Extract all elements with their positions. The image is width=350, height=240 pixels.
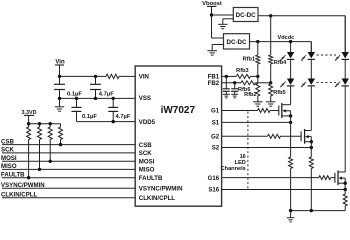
svg-text:Channels: Channels (221, 166, 246, 172)
LED D4 (301, 79, 315, 88)
svg-text:4.7µF: 4.7µF (116, 114, 131, 120)
svg-text:Rfb2: Rfb2 (244, 92, 256, 98)
wire S1 (222, 114, 293, 124)
resistor sense R1 (289, 157, 293, 211)
svg-text:CLKIN/CPLL: CLKIN/CPLL (1, 192, 37, 199)
svg-text:CSB: CSB (1, 138, 14, 145)
svg-text:MOSI: MOSI (1, 155, 17, 162)
resistor pull-up R4 (48, 124, 52, 163)
capacitor C3 0.1uF (72, 98, 98, 121)
net label CSB (1, 138, 14, 145)
DC-DC converter 2 (224, 34, 250, 49)
junction (58, 75, 97, 78)
resistor gate G1 (258, 109, 271, 113)
svg-text:Rfb3: Rfb3 (236, 68, 248, 74)
svg-text:CLKIN/CPLL: CLKIN/CPLL (139, 195, 175, 202)
wire LED column 3 (344, 16, 346, 79)
net label MISO (1, 163, 17, 170)
svg-text:MISO: MISO (1, 163, 17, 170)
wire FB2 (222, 81, 273, 84)
LED D2 (280, 79, 294, 88)
svg-text:0.1µF: 0.1µF (82, 114, 97, 120)
ground DC-DC2 (207, 45, 223, 56)
pin label VSS (139, 95, 151, 102)
svg-text:G1: G1 (211, 108, 220, 115)
pin label VDD5 (139, 119, 156, 126)
ground (266, 102, 276, 106)
wire Q1 source down (290, 116, 292, 157)
ground DC-DC1 (218, 19, 233, 29)
svg-text:VSYNC/PWMIN: VSYNC/PWMIN (1, 182, 45, 189)
capacitor FB1 (223, 76, 230, 91)
resistor pull-up R3 (38, 124, 42, 171)
resistor gate G2 (268, 134, 281, 138)
net label SCK (1, 147, 14, 154)
resistor pull-up R5 (59, 124, 63, 147)
wire S2 (222, 140, 313, 149)
junction (58, 97, 115, 100)
wire Q3 source down (344, 183, 346, 194)
transistor Q3 (335, 170, 345, 185)
dashed continuation row1 (317, 54, 337, 56)
dashed continuation row2 (317, 82, 337, 84)
svg-text:FAULTB: FAULTB (1, 172, 25, 179)
DC-DC converter 1 (233, 8, 258, 22)
svg-text:VIN: VIN (139, 74, 149, 81)
pin label FB2 (208, 80, 220, 87)
transistor Q1 (279, 103, 291, 118)
LED D3 (301, 52, 315, 61)
wire VSYNC/PWMIN (2, 187, 135, 189)
svg-text:MISO: MISO (139, 167, 155, 174)
svg-text:S2: S2 (212, 145, 220, 152)
wire G16 (222, 177, 335, 179)
wire SCK (2, 152, 135, 154)
pin label S2 (212, 145, 220, 152)
svg-text:G2: G2 (211, 134, 220, 141)
capacitor C1 0.1uF (54, 76, 82, 98)
resistor Rfb6 (238, 81, 255, 93)
wire column1 to Q1 (290, 86, 292, 104)
svg-text:Vdcdc: Vdcdc (278, 35, 295, 41)
resistor Rfb5 (269, 83, 286, 102)
net label FAULTB (1, 172, 25, 179)
resistor sense R2 (309, 157, 313, 211)
supply Vboost (202, 1, 222, 15)
note 16 LED Channels (221, 154, 246, 172)
pin label G1 (211, 108, 220, 115)
svg-text:S16: S16 (208, 187, 219, 194)
wire ground rail (289, 209, 345, 212)
wire column3 to Q3 (344, 86, 346, 172)
pin label MOSI (139, 159, 155, 166)
svg-text:0.1µF: 0.1µF (67, 91, 82, 97)
LED D6 (335, 79, 349, 88)
IC U1 iW7027 (135, 66, 221, 206)
pin label CLKIN/CPLL (139, 195, 175, 202)
wire LED column 2 (310, 42, 312, 79)
pin label G16 (208, 175, 220, 182)
capacitor C2 4.7uF (90, 76, 114, 98)
resistor gate G16 (319, 176, 331, 180)
resistor R_vin (106, 74, 119, 78)
resistor pull-up R2 (27, 124, 31, 180)
pin label VIN (139, 74, 149, 81)
wire G2 (222, 135, 302, 137)
wire 3.3VD rail (27, 122, 61, 125)
resistor Rfb3 (236, 68, 250, 78)
svg-text:DC-DC: DC-DC (227, 39, 247, 46)
wire FB1 (222, 75, 260, 78)
dashed channels separator (247, 112, 249, 189)
resistor sense R3 (343, 194, 347, 211)
pin label G2 (211, 134, 220, 141)
svg-text:VSYNC/PWMIN: VSYNC/PWMIN (139, 185, 183, 192)
svg-text:MOSI: MOSI (139, 159, 155, 166)
LED D5 (335, 52, 349, 61)
net label Vdcdc (278, 35, 295, 41)
supply Vin (55, 59, 65, 77)
resistor Rfb2 (244, 76, 260, 101)
LED D1 (280, 52, 294, 61)
wire VIN rail (60, 75, 136, 77)
svg-text:16: 16 (240, 154, 246, 160)
ground (231, 91, 238, 98)
capacitor FB2 (231, 83, 238, 92)
svg-text:SCK: SCK (139, 150, 152, 157)
wire VSS rail (60, 97, 136, 99)
wire VDD5 rail (77, 120, 136, 123)
wire FAULTB (2, 177, 135, 179)
wire boost rail (258, 14, 345, 52)
svg-text:SCK: SCK (1, 147, 14, 154)
pin label S1 (212, 120, 220, 127)
wire S16 (222, 182, 347, 192)
pin label CSB (139, 142, 152, 149)
svg-text:S1: S1 (212, 120, 220, 127)
wire CSB (2, 144, 135, 146)
ground (287, 211, 295, 222)
pin label FB1 (208, 74, 220, 81)
svg-text:Rfb1: Rfb1 (243, 56, 255, 62)
pin label SCK (139, 150, 152, 157)
supply 3.3VD (22, 110, 37, 124)
pin label S16 (208, 187, 219, 194)
resistor Rfb4 (269, 16, 287, 83)
transistor Q2 (301, 129, 311, 144)
net label MOSI (1, 155, 17, 162)
wire MISO (2, 168, 135, 170)
pin label MISO (139, 167, 155, 174)
resistor Rfb1 (243, 42, 260, 77)
ground (253, 102, 263, 106)
svg-text:4.7µF: 4.7µF (99, 91, 114, 97)
wire column2 to Q2 (310, 86, 312, 130)
net label VSYNC/PWMIN (1, 182, 45, 189)
wire LED column 1 (290, 42, 292, 79)
svg-text:iW7027: iW7027 (161, 105, 196, 116)
wire Q2 source down (310, 142, 312, 157)
capacitor C4 4.7uF (108, 98, 131, 121)
svg-text:CSB: CSB (139, 142, 152, 149)
wire Vboost feed (210, 13, 234, 38)
svg-text:Rfb5: Rfb5 (273, 90, 285, 96)
svg-text:FB2: FB2 (208, 80, 220, 87)
ground (55, 98, 64, 111)
pin label VSYNC/PWMIN (139, 185, 183, 192)
svg-text:DC-DC: DC-DC (236, 12, 256, 19)
wire G1 (222, 110, 279, 112)
svg-text:FAULTB: FAULTB (139, 175, 163, 182)
ground (223, 91, 230, 98)
pin label FAULTB (139, 175, 163, 182)
wire CLKIN/CPLL (2, 197, 135, 199)
svg-text:VSS: VSS (139, 95, 151, 102)
svg-text:G16: G16 (208, 175, 220, 182)
wire MOSI (2, 160, 135, 162)
net label CLKIN/CPLL (1, 192, 37, 199)
svg-text:VDD5: VDD5 (139, 119, 156, 126)
wire Vdcdc rail (250, 40, 312, 52)
